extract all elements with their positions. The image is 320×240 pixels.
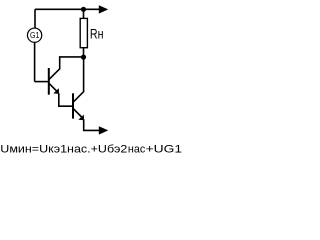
wire base of Q1 (35, 81, 49, 83)
wire Q2 emitter down and bottom output (84, 119, 100, 130)
wire left drop to G1 (34, 9, 36, 28)
svg-text:G1: G1 (30, 31, 40, 40)
wire G1 bottom to base corner (34, 42, 36, 81)
svg-text:нас: нас (128, 144, 146, 156)
transistor Q2 base bar (72, 93, 74, 118)
svg-text:+UG1: +UG1 (146, 144, 183, 156)
wire Q2 emitter diagonal (73, 109, 82, 118)
transistor Q2 emitter arrowhead (78, 115, 84, 121)
resistor RH body (80, 18, 87, 47)
svg-text:Uмин=Uкэ1нас.+Uбэ2: Uмин=Uкэ1нас.+Uбэ2 (0, 144, 127, 156)
arrow output top (99, 5, 108, 13)
wire Q1 emitter down and to Q2 base (59, 93, 73, 106)
junction dot below resistor (81, 55, 86, 60)
transistor Q1 emitter arrowhead (53, 88, 59, 94)
generator G1 circle (27, 28, 41, 42)
transistor Q1 base bar (48, 68, 50, 95)
wire resistor bottom (83, 48, 85, 57)
junction dot top (81, 7, 86, 12)
wire resistor top (83, 9, 85, 18)
svg-text:Rн: Rн (90, 26, 104, 42)
wire Q1 emitter diagonal (49, 83, 57, 91)
wire Q2 collector vertical and diagonal (73, 57, 84, 102)
wire top horizontal (35, 8, 99, 10)
arrow output bottom (99, 126, 108, 134)
wire Q1 collector diagonal (49, 57, 84, 80)
